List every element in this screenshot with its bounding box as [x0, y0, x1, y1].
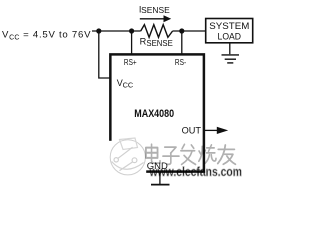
- svg-text:MAX4080: MAX4080: [134, 108, 174, 120]
- svg-text:RS-: RS-: [175, 57, 186, 67]
- svg-text:SENSE: SENSE: [146, 39, 172, 48]
- svg-text:www.elecfans.com: www.elecfans.com: [149, 164, 242, 179]
- svg-text:LOAD: LOAD: [218, 32, 242, 42]
- svg-text:CC: CC: [123, 81, 134, 90]
- svg-text:OUT: OUT: [182, 125, 202, 135]
- svg-text:SENSE: SENSE: [141, 6, 170, 15]
- svg-text:VCC = 4.5V to 76V: VCC = 4.5V to 76V: [2, 30, 91, 42]
- svg-text:SYSTEM: SYSTEM: [209, 21, 249, 31]
- svg-text:RS+: RS+: [124, 57, 137, 67]
